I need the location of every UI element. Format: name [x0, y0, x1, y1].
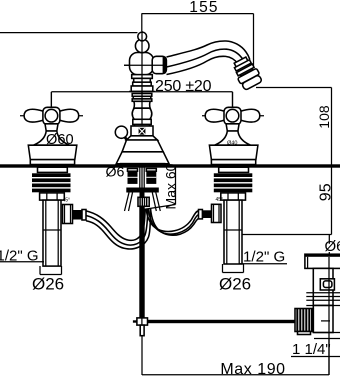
svg-text:Max 190: Max 190	[220, 361, 285, 378]
svg-text:1/2" G: 1/2" G	[243, 249, 285, 266]
svg-text:1 1/4": 1 1/4"	[292, 341, 331, 358]
svg-text:95: 95	[318, 183, 335, 201]
svg-text:Ø40: Ø40	[227, 141, 237, 147]
svg-text:45°: 45°	[63, 197, 71, 203]
svg-text:250 ±20: 250 ±20	[155, 78, 212, 95]
svg-text:Ø6: Ø6	[106, 164, 125, 180]
svg-text:45°: 45°	[216, 197, 224, 203]
svg-text:108: 108	[316, 105, 332, 129]
svg-text:Ø60: Ø60	[46, 132, 74, 148]
svg-text:Max 60: Max 60	[163, 163, 179, 209]
svg-text:Ø63: Ø63	[325, 238, 340, 255]
svg-text:Ø26: Ø26	[219, 274, 251, 293]
svg-text:Ø26: Ø26	[32, 274, 64, 293]
svg-text:155: 155	[189, 0, 218, 16]
